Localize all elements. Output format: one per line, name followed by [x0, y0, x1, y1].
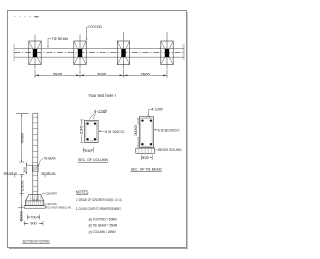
FOOTING label plan	[86, 25, 102, 41]
svg-text:PCC IN FLAT GRADE (1:4:8): PCC IN FLAT GRADE (1:4:8)	[46, 206, 71, 210]
plan dimension line 2500/2500/2500	[35, 74, 167, 76]
sheet border frame	[8, 11, 188, 249]
column ties (rungs)	[33, 117, 38, 191]
svg-text:230: 230	[85, 149, 92, 153]
TIE BEAM label plan	[47, 37, 68, 48]
footing F4 plan	[161, 32, 173, 69]
column rebars	[86, 122, 96, 140]
svg-text:Your text here !: Your text here !	[88, 93, 116, 99]
faint toolbar marks top-left	[14, 16, 39, 17]
footing F1 plan	[29, 35, 41, 70]
column elevation shaft	[33, 113, 38, 194]
title SEC. OF COLUMN	[78, 158, 108, 162]
column section outer rect	[84, 120, 98, 142]
svg-text:4-12Ø: 4-12Ø	[94, 109, 108, 114]
svg-text:(c) COLUMN = 25MM: (c) COLUMN = 25MM	[89, 230, 116, 234]
ground level label right	[42, 171, 56, 177]
dim 900	[24, 221, 43, 226]
column 230 bottom dim	[83, 147, 93, 153]
label 6 dia 100C/C column	[99, 130, 126, 134]
svg-text:1500: 1500	[21, 180, 25, 191]
svg-text:300: 300	[134, 125, 138, 136]
tie beam bottom edge line	[14, 56, 184, 58]
svg-text:TIE BEAM: TIE BEAM	[44, 156, 56, 160]
footing F2 plan	[74, 35, 86, 70]
horizontal dash-dot centerline	[14, 52, 184, 54]
svg-text:900: 900	[30, 222, 36, 226]
label BRICK SOLING	[155, 148, 182, 152]
svg-text:700: 700	[30, 215, 36, 219]
svg-text:600: 600	[19, 211, 23, 222]
tie beam top edge line	[14, 47, 184, 49]
TIE BEAM label elevation	[38, 156, 55, 166]
label 4-12 dia column	[89, 109, 107, 120]
svg-text:SEC. OF TIE BEAM: SEC. OF TIE BEAM	[131, 168, 162, 172]
tie beam section outer rect	[139, 117, 153, 148]
brick soling block	[136, 148, 155, 153]
svg-text:2500: 2500	[140, 72, 150, 77]
ground level label left	[4, 171, 18, 178]
PCC strip under footing	[24, 206, 45, 209]
svg-text:1. GRADE OF CONCRETE=M20(1: 1.: 1. GRADE OF CONCRETE=M20(1: 1.5 :3)	[76, 198, 122, 202]
svg-text:2500: 2500	[53, 72, 63, 77]
label 4 O 12 bars	[44, 202, 57, 206]
faint wall end marker right	[183, 44, 185, 60]
svg-text:NOTES: NOTES	[76, 190, 89, 195]
svg-text:6 Ø 100C/C: 6 Ø 100C/C	[105, 130, 125, 134]
title SECTION OF FOOTING	[22, 239, 49, 243]
chain arrowheads	[21, 114, 27, 208]
tie beam 300 vertical dim	[134, 119, 139, 146]
column section stirrup	[86, 122, 97, 141]
svg-text:FOOTING: FOOTING	[88, 25, 102, 29]
label CONCRETE	[42, 191, 57, 195]
svg-text:EXST. GRD. LVL.: EXST. GRD. LVL.	[4, 171, 18, 175]
footing hatch	[27, 195, 42, 205]
column 230 vertical dim	[80, 120, 84, 142]
svg-text:300: 300	[22, 167, 26, 173]
svg-text:TIE BEAM: TIE BEAM	[52, 37, 69, 41]
svg-text:NAT. GRD. LVL.: NAT. GRD. LVL.	[42, 171, 56, 175]
svg-text:(b) TIE BEAM = 25MM: (b) TIE BEAM = 25MM	[89, 224, 118, 228]
column dowel bars into footing	[33, 194, 38, 200]
tie beam 300 stub dimension	[26, 163, 32, 175]
svg-text:CONCRETE: CONCRETE	[45, 191, 57, 195]
label 6 dia @100C/C tie beam	[154, 129, 180, 133]
footing elevation sloped block	[25, 194, 43, 205]
svg-text:2500: 2500	[97, 72, 107, 77]
svg-text:2. CLEAR COVER TO REINFORCEMEN: 2. CLEAR COVER TO REINFORCEMENT:-	[76, 207, 122, 211]
top dimension tick	[16, 113, 29, 115]
tie beam stirrup	[141, 118, 152, 146]
tie beam 230 bottom dim	[141, 155, 152, 160]
dim 700	[27, 215, 39, 220]
svg-text:4500: 4500	[21, 133, 25, 144]
svg-text:4-12Ø: 4-12Ø	[151, 107, 163, 112]
svg-text:(a) FOOTING = 50MM: (a) FOOTING = 50MM	[89, 217, 117, 221]
svg-text:SECTION OF FOOTING: SECTION OF FOOTING	[23, 239, 50, 243]
svg-text:230: 230	[143, 156, 149, 160]
title SEC. OF TIE BEAM	[131, 168, 162, 172]
chain tick marks	[18, 162, 25, 208]
svg-text:230: 230	[80, 126, 84, 135]
tie beam rebars	[141, 119, 152, 145]
left vertical dimension chain line (4500 segment)	[21, 114, 23, 222]
label 4-12 dia tie beam	[146, 107, 163, 118]
svg-text:6 Ø @100C/C: 6 Ø @100C/C	[158, 129, 180, 133]
svg-text:SEC. OF COLUMN: SEC. OF COLUMN	[78, 158, 108, 162]
footing F3 plan	[117, 32, 129, 69]
plan dimension extension lines	[35, 70, 167, 78]
svg-text:BRICK SOLING: BRICK SOLING	[158, 148, 182, 152]
label PCC	[45, 206, 71, 210]
faint wall end marker left	[13, 44, 15, 61]
tie beam crossing box in elevation	[32, 165, 38, 171]
